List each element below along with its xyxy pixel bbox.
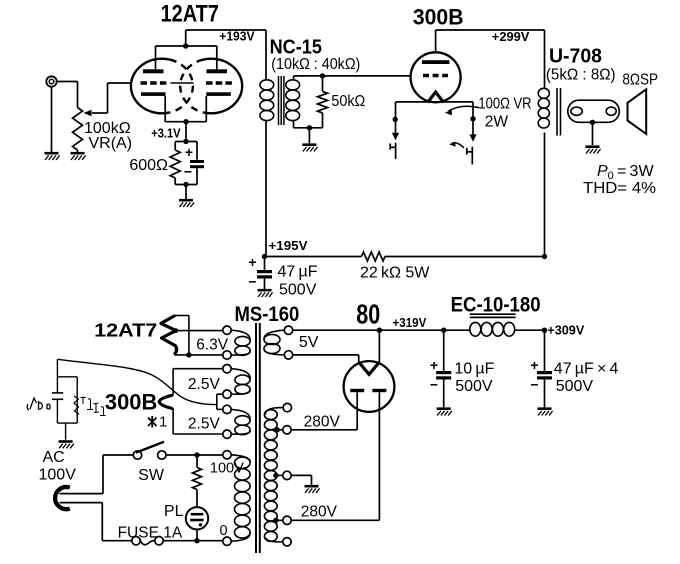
- svg-text:100V: 100V: [39, 467, 77, 484]
- svg-text:0: 0: [220, 523, 228, 539]
- svg-text:+: +: [185, 144, 193, 160]
- svg-text:+: +: [530, 357, 538, 373]
- svg-text:500V: 500V: [279, 282, 317, 299]
- svg-text:47 µF: 47 µF: [278, 264, 318, 281]
- svg-text:300B: 300B: [413, 5, 464, 30]
- svg-text:6.3V: 6.3V: [196, 337, 229, 354]
- svg-text:47 µF × 4: 47 µF × 4: [554, 361, 619, 378]
- svg-text:5V: 5V: [299, 334, 319, 351]
- svg-text:+: +: [430, 357, 438, 373]
- svg-text:22 kΩ 5W: 22 kΩ 5W: [360, 265, 430, 282]
- svg-text:+: +: [248, 254, 256, 270]
- svg-text:80: 80: [356, 298, 380, 329]
- svg-text:300B: 300B: [105, 390, 157, 415]
- svg-text:280V: 280V: [301, 504, 338, 521]
- svg-text:+195V: +195V: [269, 238, 308, 253]
- svg-text:AC: AC: [43, 449, 65, 466]
- svg-text:2.5V: 2.5V: [188, 416, 221, 433]
- svg-text:THD= 4%: THD= 4%: [583, 180, 656, 197]
- svg-text:280V: 280V: [304, 414, 341, 431]
- svg-text:(10kΩ : 40kΩ): (10kΩ : 40kΩ): [271, 56, 360, 73]
- svg-text:−: −: [530, 377, 538, 393]
- svg-text:2W: 2W: [485, 114, 509, 131]
- svg-text:1: 1: [159, 414, 167, 431]
- svg-text:100V: 100V: [210, 461, 244, 477]
- svg-text:SW: SW: [138, 467, 165, 484]
- svg-text:500V: 500V: [556, 378, 594, 395]
- svg-text:VR(A): VR(A): [89, 135, 133, 152]
- svg-text:+299V: +299V: [492, 29, 530, 44]
- svg-text:U-708: U-708: [549, 45, 602, 67]
- svg-text:12AT7: 12AT7: [161, 1, 219, 28]
- svg-text:PL: PL: [164, 503, 184, 520]
- svg-text:2.5V: 2.5V: [188, 376, 221, 393]
- svg-text:600Ω: 600Ω: [129, 157, 168, 174]
- svg-text:+319V: +319V: [393, 315, 427, 330]
- svg-text:+193V: +193V: [219, 29, 255, 44]
- svg-text:50kΩ: 50kΩ: [331, 93, 365, 110]
- svg-text:−: −: [184, 164, 192, 180]
- svg-text:MS-160: MS-160: [235, 303, 300, 326]
- svg-text:+309V: +309V: [547, 323, 584, 338]
- svg-text:100Ω VR: 100Ω VR: [478, 96, 531, 113]
- svg-text:FUSE 1A: FUSE 1A: [118, 525, 183, 542]
- svg-text:500V: 500V: [455, 378, 493, 395]
- svg-text:+3.1V: +3.1V: [151, 126, 181, 141]
- svg-text:(5kΩ : 8Ω): (5kΩ : 8Ω): [546, 66, 616, 83]
- svg-text:EC-10-180: EC-10-180: [451, 294, 541, 317]
- svg-text:8ΩSP: 8ΩSP: [622, 71, 658, 88]
- svg-text:−: −: [248, 274, 256, 290]
- svg-text:−: −: [430, 377, 438, 393]
- svg-text:12AT7: 12AT7: [94, 321, 157, 341]
- svg-text:10 µF: 10 µF: [454, 361, 494, 378]
